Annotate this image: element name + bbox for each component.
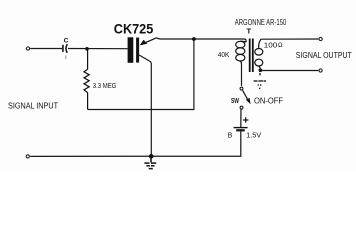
transformer primary winding (40K) bbox=[236, 41, 247, 64]
wire input terminal to capacitor bbox=[30, 48, 62, 50]
resistor 3.3 MEG bbox=[84, 49, 89, 110]
svg-text:SIGNAL INPUT: SIGNAL INPUT bbox=[8, 101, 58, 110]
node: base / resistor junction bbox=[85, 47, 89, 51]
node: ground junction on bus bbox=[149, 154, 154, 159]
svg-text:40K: 40K bbox=[218, 50, 230, 59]
svg-text:ARGONNE AR-150: ARGONNE AR-150 bbox=[235, 18, 287, 27]
switch bottom contact bbox=[240, 106, 243, 109]
output terminal top bbox=[319, 37, 322, 40]
output terminal bottom bbox=[319, 69, 322, 72]
wire emitter to transformer primary bbox=[157, 38, 247, 42]
wire capacitor to transistor base bbox=[68, 48, 128, 50]
ground (transformer secondary) bbox=[254, 73, 266, 88]
switch top contact bbox=[240, 87, 243, 90]
svg-text:1.5V: 1.5V bbox=[246, 131, 261, 140]
svg-text:CK725: CK725 bbox=[114, 21, 154, 36]
svg-text:C: C bbox=[64, 37, 69, 44]
wire: bias resistor bottom to supply line (up at right) bbox=[88, 39, 194, 110]
transformer secondary winding (100 ohm) bbox=[255, 39, 263, 70]
svg-text:ON-OFF: ON-OFF bbox=[254, 97, 283, 106]
node: secondary bottom junction bbox=[259, 69, 263, 73]
transistor collector wire bbox=[139, 55, 151, 156]
wire battery to bottom bus bbox=[30, 131, 241, 156]
node: emitter line / bias junction bbox=[192, 37, 196, 41]
svg-text:100: 100 bbox=[264, 40, 278, 49]
transistor CK725 (base bars) bbox=[128, 37, 134, 63]
svg-text:3.3 MEG: 3.3 MEG bbox=[93, 81, 117, 90]
battery plates bbox=[234, 127, 248, 129]
transistor emitter wire with arrow bbox=[142, 38, 157, 45]
battery B plus sign bbox=[243, 117, 248, 122]
switch blade with arrow bbox=[243, 90, 248, 100]
wire secondary top to output terminal bbox=[261, 38, 319, 40]
input terminal (top left) bbox=[26, 47, 29, 50]
svg-text:SIGNAL OUTPUT: SIGNAL OUTPUT bbox=[296, 51, 352, 60]
svg-text:Ω: Ω bbox=[278, 43, 283, 49]
input terminal (bottom left) bbox=[26, 155, 29, 158]
wire secondary bottom to output terminal bbox=[260, 70, 318, 72]
capacitor C bbox=[63, 44, 67, 59]
ground (main, below bus) bbox=[144, 158, 156, 169]
svg-text:T: T bbox=[247, 27, 252, 36]
switch SW (wire primary bottom to switch) bbox=[241, 64, 243, 86]
svg-text:B: B bbox=[228, 132, 233, 139]
transformer core bbox=[249, 39, 251, 73]
wire switch to battery bbox=[240, 109, 242, 127]
svg-text:SW: SW bbox=[231, 96, 239, 105]
